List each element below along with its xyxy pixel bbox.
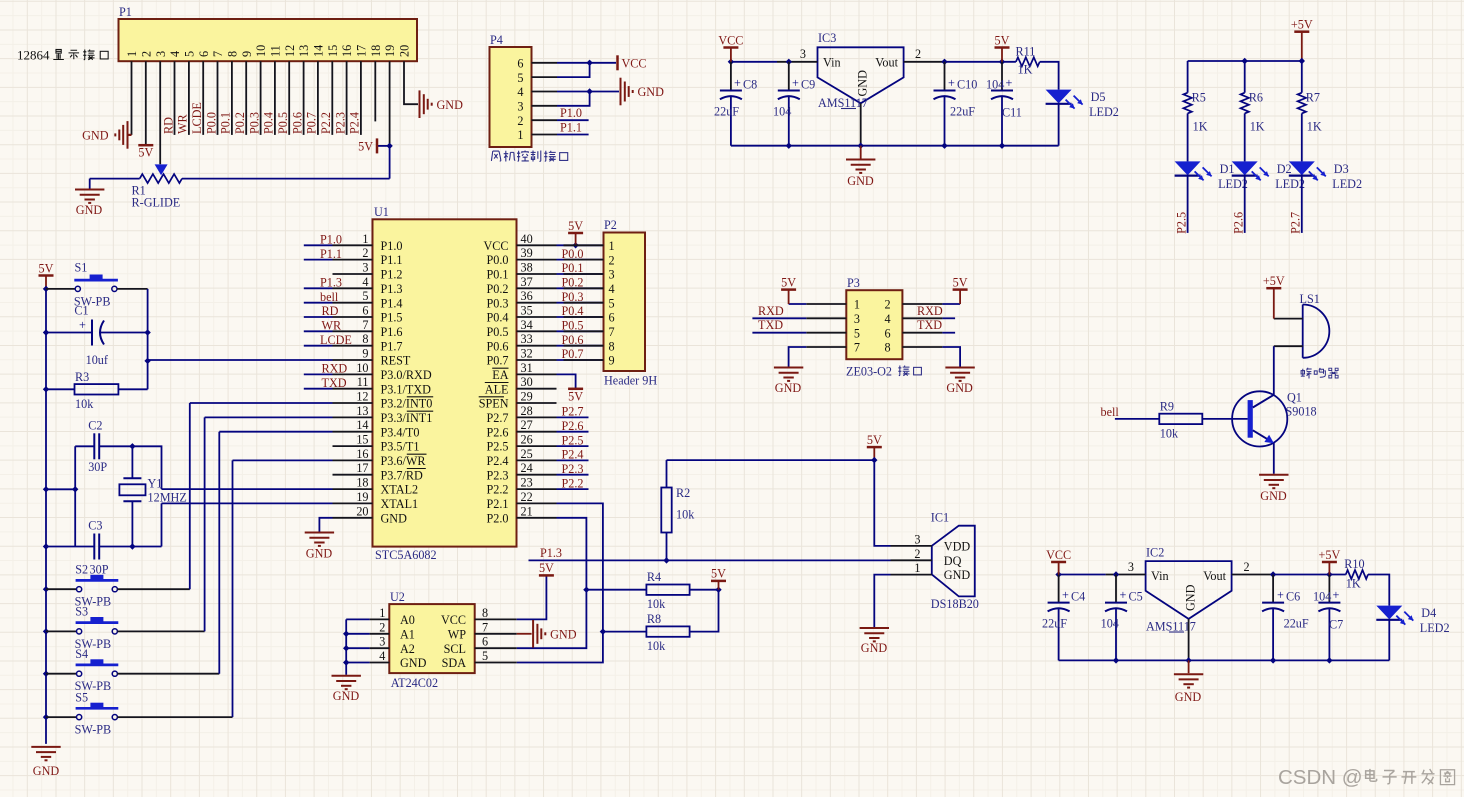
wire P2.2	[557, 488, 589, 490]
wire pin 14	[317, 61, 319, 135]
wire pin1 to ground	[131, 61, 133, 135]
svg-text:GND: GND	[856, 70, 870, 97]
svg-text:12864: 12864	[17, 48, 50, 63]
svg-text:P0.0: P0.0	[204, 112, 218, 134]
svg-text:13: 13	[356, 404, 368, 418]
svg-text:P0.1: P0.1	[219, 112, 233, 134]
wire/net RD	[304, 316, 333, 318]
svg-text:RXD: RXD	[322, 362, 348, 376]
wire P0.0	[557, 259, 604, 261]
svg-text:5: 5	[517, 71, 523, 85]
svg-text:P3.4/T0: P3.4/T0	[381, 425, 420, 439]
wire	[346, 647, 369, 649]
wire 5V rail	[944, 61, 1016, 63]
LED D2	[1232, 161, 1258, 175]
svg-text:P2.4: P2.4	[562, 448, 584, 462]
svg-text:P1.1: P1.1	[381, 253, 403, 267]
svg-text:3: 3	[914, 532, 920, 546]
wire P2.4	[557, 459, 589, 461]
IC U2 AT24C02	[389, 604, 474, 673]
svg-text:Vout: Vout	[1203, 569, 1226, 583]
svg-text:RXD: RXD	[758, 304, 784, 318]
svg-text:C8: C8	[743, 78, 757, 92]
capacitor C6	[1272, 575, 1274, 603]
svg-text:5: 5	[854, 326, 860, 340]
IC3 pin 3	[777, 61, 818, 63]
wire pin 10	[260, 61, 262, 135]
svg-text:P1.5: P1.5	[381, 311, 403, 325]
svg-text:23: 23	[521, 476, 533, 490]
U1 pin 19	[333, 502, 373, 504]
wire S4 row	[46, 673, 77, 675]
U1 pin 36	[517, 302, 557, 304]
wire to XTAL1	[132, 446, 161, 489]
svg-text:12MHZ: 12MHZ	[148, 491, 187, 505]
svg-text:9: 9	[609, 354, 615, 368]
svg-text:S5: S5	[75, 690, 88, 704]
wire pin1 net P1.1	[557, 134, 589, 136]
wire R2 top	[666, 460, 668, 487]
wire pin 17	[360, 61, 362, 135]
capacitor C3	[46, 546, 94, 548]
wire buzzer to collector	[1273, 346, 1275, 394]
svg-text:+: +	[734, 76, 741, 90]
U1 pin 2	[333, 259, 373, 261]
svg-text:GND: GND	[944, 568, 971, 582]
wire P2.3	[557, 474, 589, 476]
wire U1 GND	[319, 518, 332, 532]
svg-text:P0.2: P0.2	[233, 112, 247, 134]
svg-text:+: +	[1120, 588, 1127, 602]
svg-text:8: 8	[885, 341, 891, 355]
wire R8 right	[690, 590, 719, 632]
wire branch R7	[1301, 61, 1303, 93]
capacitor C10	[944, 62, 946, 91]
resistor R1 (pot)	[155, 164, 168, 175]
wire to switch	[190, 402, 333, 404]
svg-text:20: 20	[356, 504, 368, 518]
U1 pin 1	[333, 244, 373, 246]
svg-text:11: 11	[269, 45, 283, 57]
wire IC1 GND	[874, 575, 890, 627]
LED D4	[1376, 606, 1402, 620]
svg-text:LED2: LED2	[1218, 177, 1248, 191]
svg-text:11: 11	[357, 375, 369, 389]
switch S5	[77, 715, 82, 720]
svg-text:P1.0: P1.0	[560, 106, 582, 120]
svg-text:15: 15	[326, 45, 340, 57]
svg-text:P1.3: P1.3	[540, 546, 562, 560]
svg-text:P1.0: P1.0	[320, 233, 342, 247]
svg-text:P1.6: P1.6	[381, 325, 403, 339]
wire pin20 to ground	[404, 61, 418, 104]
wire net bell	[1115, 418, 1159, 420]
svg-text:P2.6: P2.6	[1232, 212, 1246, 234]
svg-text:GND: GND	[381, 511, 408, 525]
power port 5V	[953, 288, 968, 291]
svg-text:TXD: TXD	[917, 318, 942, 332]
svg-text:8: 8	[226, 51, 240, 57]
svg-text:D2: D2	[1277, 162, 1292, 176]
svg-text:2: 2	[139, 51, 153, 57]
svg-text:TXD: TXD	[322, 376, 347, 390]
U1 pin 18	[333, 488, 373, 490]
power port 5V	[568, 232, 583, 235]
P2 pin 5	[564, 302, 604, 304]
connector P1	[119, 19, 418, 61]
svg-text:P2.6: P2.6	[486, 425, 508, 439]
wire R8 left	[603, 631, 647, 633]
svg-text:33: 33	[521, 332, 533, 346]
wire pin6 to VCC	[557, 62, 616, 64]
svg-text:LCDE: LCDE	[320, 333, 352, 347]
svg-text:+5V: +5V	[1263, 274, 1285, 288]
svg-text:1: 1	[517, 128, 523, 142]
svg-text:D5: D5	[1091, 90, 1106, 104]
ground	[1174, 673, 1203, 675]
U1 pin 33	[517, 345, 557, 347]
U2 pin 3	[370, 647, 390, 649]
svg-text:CSDN @: CSDN @	[1278, 766, 1363, 789]
svg-text:C6: C6	[1286, 590, 1300, 604]
svg-text:R9: R9	[1160, 399, 1174, 413]
svg-text:5V: 5V	[39, 261, 54, 275]
svg-text:C2: C2	[88, 419, 102, 433]
svg-text:4: 4	[168, 51, 182, 57]
svg-text:A1: A1	[400, 627, 415, 641]
svg-text:SCL: SCL	[444, 642, 466, 656]
wire base	[1202, 418, 1247, 420]
svg-text:GND: GND	[861, 641, 888, 655]
svg-text:30P: 30P	[90, 563, 109, 577]
svg-text:GND: GND	[1260, 489, 1287, 503]
wire branch R6	[1244, 61, 1246, 93]
svg-text:1: 1	[914, 561, 920, 575]
svg-text:10k: 10k	[75, 397, 94, 411]
transistor Q1 S9018	[1232, 391, 1287, 446]
svg-text:Vin: Vin	[1151, 569, 1169, 583]
wire pot left to ground	[89, 179, 91, 189]
wire D5 down	[1058, 104, 1060, 145]
wire C1 right	[101, 332, 148, 334]
svg-text:IC2: IC2	[1146, 546, 1164, 560]
svg-text:P2.5: P2.5	[486, 440, 508, 454]
U1 pin 20	[333, 517, 373, 519]
wire pin 7	[217, 61, 219, 135]
svg-text:GND: GND	[306, 547, 333, 561]
wire 5V to R2	[667, 459, 875, 461]
wire VCC to 5V	[517, 575, 547, 619]
svg-text:8: 8	[482, 606, 488, 620]
wire S2 right	[117, 588, 189, 590]
svg-text:P2.2: P2.2	[486, 483, 508, 497]
svg-text:6: 6	[517, 57, 523, 71]
svg-text:P1.7: P1.7	[381, 339, 403, 353]
wire 5V to VDD	[874, 460, 890, 546]
svg-text:LED2: LED2	[1332, 177, 1362, 191]
svg-text:bell: bell	[1101, 405, 1120, 419]
svg-text:22uF: 22uF	[714, 105, 739, 119]
wire R3 right	[118, 388, 147, 390]
svg-text:P2.3: P2.3	[486, 468, 508, 482]
svg-text:P0.4: P0.4	[262, 112, 276, 134]
svg-text:3: 3	[517, 100, 523, 114]
svg-text:REST: REST	[381, 354, 411, 368]
svg-text:104: 104	[986, 78, 1004, 92]
svg-text:+: +	[948, 76, 955, 90]
wire pin18	[374, 61, 376, 121]
svg-text:22uF: 22uF	[1042, 617, 1067, 631]
svg-text:P2.2: P2.2	[319, 112, 333, 134]
svg-text:bell: bell	[320, 290, 339, 304]
wire S4 right	[117, 673, 219, 675]
svg-text:GND: GND	[333, 689, 360, 703]
svg-text:17: 17	[355, 45, 369, 57]
wire R4 left	[586, 589, 646, 591]
P2 pin 7	[564, 330, 604, 332]
wire net P1.3	[529, 559, 891, 561]
wire pin 8	[231, 61, 233, 135]
svg-text:RD: RD	[322, 304, 339, 318]
power port 5V	[39, 274, 54, 277]
svg-text:18: 18	[369, 45, 383, 57]
ground	[419, 90, 421, 118]
svg-text:R4: R4	[647, 570, 661, 584]
wire C2 row left	[46, 488, 75, 490]
svg-text:P0.7: P0.7	[305, 112, 319, 134]
wire U2 left rail	[346, 618, 369, 620]
svg-text:10k: 10k	[676, 508, 695, 522]
svg-text:P1: P1	[119, 5, 132, 19]
svg-text:16: 16	[356, 447, 368, 461]
U1 pin 11	[333, 388, 373, 390]
resistor R3	[75, 384, 119, 394]
wire pin3 net RXD	[752, 317, 806, 319]
wire bottom rail	[1059, 659, 1390, 661]
connector P4	[490, 47, 532, 147]
power 5V	[873, 447, 875, 460]
svg-text:P3.7/RD: P3.7/RD	[381, 468, 424, 482]
switch S4	[77, 671, 82, 676]
svg-text:P0.3: P0.3	[486, 296, 508, 310]
svg-text:17: 17	[356, 461, 368, 475]
U1 pin 15	[333, 445, 373, 447]
wire LED down	[1244, 176, 1246, 233]
svg-text:10k: 10k	[1160, 426, 1179, 440]
svg-text:ALE: ALE	[485, 382, 509, 396]
resistor R10	[1346, 570, 1368, 579]
svg-text:6: 6	[885, 326, 891, 340]
wire VCC rail	[1059, 574, 1106, 576]
svg-text:P0.7: P0.7	[486, 354, 508, 368]
U1 pin 25	[517, 459, 557, 461]
svg-text:P2.5: P2.5	[562, 433, 584, 447]
ground	[945, 367, 974, 369]
svg-text:3: 3	[379, 635, 385, 649]
svg-text:P0.5: P0.5	[276, 112, 290, 134]
svg-text:P2.0: P2.0	[486, 511, 508, 525]
U2 pin 6	[475, 647, 517, 649]
svg-text:XTAL1: XTAL1	[381, 497, 419, 511]
svg-text:C5: C5	[1129, 590, 1143, 604]
IC1 pin 1	[891, 574, 932, 576]
U1 pin 14	[333, 431, 373, 433]
svg-text:A0: A0	[400, 613, 415, 627]
wire	[346, 633, 369, 635]
U1 pin 40	[517, 244, 557, 246]
svg-text:4: 4	[609, 282, 615, 296]
svg-text:R8: R8	[647, 612, 661, 626]
P2 pin 2	[564, 259, 604, 261]
wire/net P1.3	[304, 287, 333, 289]
svg-text:VDD: VDD	[944, 540, 971, 554]
wire pin 16	[346, 61, 348, 135]
power port VCC	[723, 46, 738, 49]
svg-text:U2: U2	[390, 590, 405, 604]
U1 pin 13	[333, 416, 373, 418]
svg-text:P0.0: P0.0	[562, 247, 584, 261]
svg-text:7: 7	[609, 325, 615, 339]
svg-text:P3.3/INT1: P3.3/INT1	[381, 411, 433, 425]
svg-text:S3: S3	[75, 605, 88, 619]
ground	[332, 675, 361, 677]
U1 pin 38	[517, 273, 557, 275]
wire/net P1.0	[304, 244, 333, 246]
svg-text:GND: GND	[1184, 584, 1198, 611]
svg-text:EA: EA	[492, 368, 508, 382]
svg-text:P1.3: P1.3	[381, 282, 403, 296]
svg-text:P2.3: P2.3	[562, 462, 584, 476]
U1 pin 35	[517, 316, 557, 318]
svg-text:R-GLIDE: R-GLIDE	[132, 196, 181, 210]
svg-text:6: 6	[609, 311, 615, 325]
svg-text:12: 12	[283, 45, 297, 57]
wire S5 row	[46, 716, 77, 718]
wire WP to GND	[517, 633, 532, 635]
svg-text:D4: D4	[1421, 606, 1436, 620]
svg-text:C4: C4	[1071, 590, 1085, 604]
connector P3	[846, 290, 902, 359]
svg-text:LED2: LED2	[1089, 105, 1119, 119]
svg-text:R11: R11	[1016, 45, 1036, 59]
P2 pin 3	[564, 273, 604, 275]
svg-text:P1.3: P1.3	[320, 276, 342, 290]
LED D3	[1289, 161, 1315, 175]
voltage regulator IC2 AMS1117	[1146, 561, 1232, 619]
svg-text:P2.2: P2.2	[562, 476, 584, 490]
svg-text:IC3: IC3	[818, 31, 836, 45]
svg-text:DS18B20: DS18B20	[931, 597, 979, 611]
resistor R9	[1159, 414, 1202, 424]
svg-text:SDA: SDA	[442, 656, 467, 670]
resistor R7	[1298, 93, 1306, 114]
svg-text:P2: P2	[604, 218, 617, 232]
svg-text:5V: 5V	[867, 433, 882, 447]
wire S1 row	[46, 288, 75, 290]
svg-text:2: 2	[914, 547, 920, 561]
svg-text:5V: 5V	[781, 275, 796, 289]
wire XTAL1	[162, 502, 333, 504]
svg-text:+5V: +5V	[1319, 548, 1341, 562]
resistor R5	[1183, 93, 1191, 114]
capacitor C11	[1001, 62, 1003, 91]
wire LED bus	[1188, 60, 1302, 62]
IC3 pin 2	[904, 61, 944, 63]
switch S1	[75, 286, 80, 291]
wire REST	[148, 359, 333, 361]
wire LED down	[1187, 176, 1189, 233]
wire R2 bottom	[666, 533, 668, 561]
wire C2 right	[99, 445, 132, 447]
wire P0.4	[557, 316, 604, 318]
svg-text:P3.5/T1: P3.5/T1	[381, 440, 420, 454]
svg-text:1: 1	[362, 232, 368, 246]
wire pin 9	[245, 61, 247, 135]
svg-text:2: 2	[362, 246, 368, 260]
svg-text:2: 2	[379, 620, 385, 634]
svg-text:25: 25	[521, 447, 533, 461]
svg-text:2: 2	[517, 114, 523, 128]
wire to XTAL2	[161, 503, 163, 546]
svg-text:GND: GND	[775, 381, 802, 395]
svg-text:5V: 5V	[539, 561, 554, 575]
svg-text:8: 8	[609, 339, 615, 353]
svg-text:S9018: S9018	[1286, 405, 1317, 419]
LS1 pins	[1274, 318, 1303, 320]
svg-text:16: 16	[340, 45, 354, 57]
U1 pin 28	[517, 416, 557, 418]
svg-text:26: 26	[521, 433, 533, 447]
crystal Y1	[131, 446, 133, 478]
U1 pin 27	[517, 431, 557, 433]
svg-text:1: 1	[379, 606, 385, 620]
svg-text:3: 3	[362, 261, 368, 275]
power port 5V	[995, 46, 1010, 49]
power port 5V	[568, 388, 583, 391]
svg-text:+: +	[1333, 588, 1340, 602]
U1 pin 31	[517, 373, 557, 375]
wire S1/C1 vertical	[147, 289, 149, 389]
svg-text:C10: C10	[957, 78, 977, 92]
U2 pin 7	[475, 633, 517, 635]
wire/net TXD	[304, 388, 333, 390]
svg-text:10: 10	[356, 361, 368, 375]
svg-text:1K: 1K	[1346, 577, 1361, 591]
wire pin4 to GND	[557, 91, 619, 93]
svg-text:R2: R2	[676, 486, 690, 500]
svg-text:C9: C9	[801, 78, 815, 92]
svg-text:U1: U1	[374, 205, 389, 219]
svg-text:4: 4	[885, 312, 891, 326]
svg-text:GND: GND	[33, 764, 60, 778]
svg-text:D3: D3	[1334, 162, 1349, 176]
wire P2.1 to U2 SDA	[517, 503, 603, 662]
wire pin1 to 5V	[789, 303, 807, 305]
U2 pin 2	[370, 633, 390, 635]
svg-text:+5V: +5V	[1291, 18, 1313, 32]
svg-text:P3.2/INT0: P3.2/INT0	[381, 397, 433, 411]
svg-text:P2.7: P2.7	[486, 411, 508, 425]
power port +5V	[1322, 561, 1337, 564]
power port +5V	[1266, 287, 1281, 290]
resistor R2	[661, 488, 671, 533]
power port 5V	[376, 138, 379, 153]
svg-text:7: 7	[482, 620, 488, 634]
U1 pin 32	[517, 359, 557, 361]
U1 pin 24	[517, 474, 557, 476]
svg-text:DQ: DQ	[944, 554, 962, 568]
connector P2	[604, 233, 646, 372]
